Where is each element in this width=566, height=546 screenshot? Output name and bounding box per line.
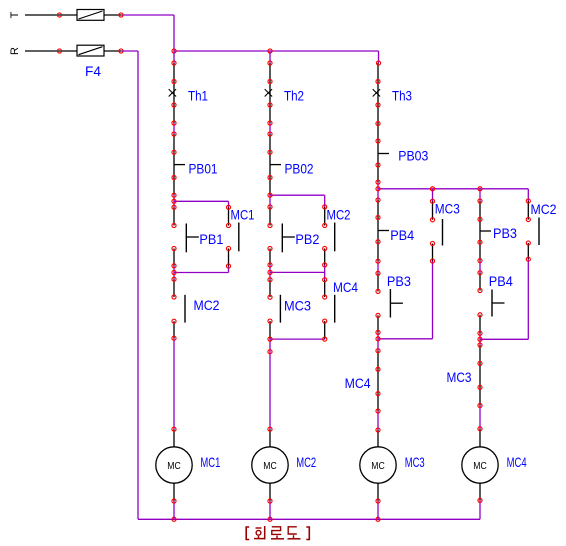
title hangul HOE: [254, 526, 266, 539]
svg-text:MC2: MC2: [194, 297, 220, 313]
wire rail 4 purple segments: [479, 189, 481, 429]
NO contact MC3: [279, 295, 281, 323]
title hangul RO: [271, 527, 284, 539]
wire rail 3 purple segments: [377, 182, 379, 519]
svg-text:MC: MC: [371, 461, 385, 472]
thermal overload contact Th3: [373, 82, 380, 106]
svg-text:PB4: PB4: [390, 227, 414, 243]
wire top supply bus purple: [174, 51, 379, 63]
wire branch MC2 right column black: [527, 201, 529, 259]
contactor coil MC1: [156, 447, 192, 483]
NO contact PB4: [492, 290, 505, 317]
NC pushbutton PB4: [378, 218, 389, 242]
wire branch MC2 tap purple: [270, 195, 325, 207]
NO contact MC3: [442, 219, 444, 246]
wire branch MC1 column black: [228, 207, 230, 266]
wire branch MC1 tap purple: [174, 201, 229, 207]
wire rail 2 purple segments: [269, 51, 271, 519]
title hangul DO: [288, 527, 301, 539]
svg-text:MC4: MC4: [345, 375, 371, 391]
svg-text:PB03: PB03: [398, 148, 428, 164]
node branch MC2 MC4 junctions: [323, 205, 327, 341]
thermal overload contact Th2: [265, 82, 272, 106]
NO contact PB2: [282, 224, 295, 253]
NC pushbutton PB03: [378, 141, 389, 165]
contactor coil MC2: [252, 447, 288, 483]
wire rail 1 purple segments: [173, 51, 175, 519]
wire branch MC4 rejoin purple: [270, 338, 325, 340]
NO contact MC2: [334, 223, 336, 252]
wire branch MC1 rejoin purple: [174, 266, 229, 273]
wire branch MC2 rejoin purple: [270, 265, 325, 280]
wire rail 3 black segments: [377, 63, 379, 501]
wire R feeder black lead: [25, 50, 77, 52]
NC pushbutton PB02: [270, 152, 281, 177]
node T line junctions: [57, 13, 123, 17]
svg-text:PB2: PB2: [295, 231, 319, 247]
NO contact MC4: [334, 295, 336, 323]
NC pushbutton PB01: [174, 152, 185, 177]
svg-text:MC3: MC3: [435, 201, 460, 217]
wire right bus purple: [378, 189, 528, 201]
NO contact MC2: [184, 295, 186, 323]
contactor coil MC3: [360, 447, 396, 483]
svg-text:PB3: PB3: [387, 273, 411, 289]
NO contact PB1: [186, 224, 199, 253]
svg-text:PB02: PB02: [285, 160, 314, 176]
wire branch MC2 right rejoin purple: [480, 259, 528, 339]
svg-text:Th2: Th2: [284, 88, 304, 104]
NC pushbutton PB3: [480, 219, 491, 242]
svg-text:PB4: PB4: [489, 273, 513, 289]
svg-text:MC4: MC4: [333, 279, 358, 295]
NO contact MC2: [538, 218, 540, 246]
node rail 4 junctions: [478, 187, 482, 503]
node top bus junctions: [172, 49, 272, 53]
svg-text:PB01: PB01: [189, 160, 218, 176]
svg-text:MC3: MC3: [447, 369, 472, 385]
node R line junctions: [57, 49, 123, 53]
svg-text:R: R: [9, 47, 21, 55]
wire rail 4 black segments: [479, 201, 481, 500]
fuse F4 body: [77, 45, 104, 56]
wire branch MC2 column black: [324, 207, 326, 265]
svg-text:MC2: MC2: [531, 201, 557, 217]
svg-text:MC1: MC1: [200, 454, 220, 470]
node branch MC1 junctions: [226, 205, 230, 268]
svg-text:MC: MC: [473, 461, 487, 472]
svg-text:MC2: MC2: [296, 454, 316, 470]
node rail 2 junctions: [268, 61, 272, 503]
title bracket right: [306, 527, 309, 540]
node branch MC2 right junctions: [526, 199, 530, 261]
svg-text:PB1: PB1: [199, 231, 223, 247]
thermal overload contact Th1: [169, 82, 176, 106]
wire R fuse to node: [104, 50, 121, 52]
node rail 1 junctions: [172, 61, 176, 503]
svg-text:MC4: MC4: [507, 454, 527, 470]
wire rail 2 black segments: [269, 63, 271, 501]
svg-text:MC: MC: [167, 461, 181, 472]
node branch MC3 junctions: [430, 187, 434, 263]
svg-text:Th1: Th1: [188, 88, 208, 104]
svg-text:MC3: MC3: [405, 454, 425, 470]
wire branch MC3 tap purple: [432, 189, 434, 201]
wire R return purple left rail: [121, 51, 138, 519]
svg-text:Th3: Th3: [392, 88, 412, 104]
svg-text:F4: F4: [85, 63, 101, 79]
wire branch MC3 rejoin purple: [378, 261, 433, 339]
wire bottom neutral bus purple: [138, 500, 480, 519]
svg-text:MC1: MC1: [231, 207, 255, 223]
wire branch MC4 column black: [324, 280, 326, 339]
node bottom bus junctions: [172, 517, 380, 521]
wire rail 1 black segments: [173, 63, 175, 501]
NO contact PB3: [390, 289, 403, 318]
NO contact MC1: [238, 223, 240, 252]
svg-text:MC3: MC3: [284, 298, 311, 314]
svg-text:MC: MC: [263, 461, 277, 472]
title bracket left: [246, 527, 249, 540]
wire T feed purple to rail 1 top: [121, 15, 174, 51]
wire T feeder black lead: [25, 14, 77, 16]
wire T fuse to node: [104, 14, 121, 16]
svg-text:PB3: PB3: [493, 225, 517, 241]
svg-text:T: T: [9, 11, 21, 18]
node rail 3 junctions: [376, 61, 381, 503]
svg-text:MC2: MC2: [327, 207, 351, 223]
contactor coil MC4: [462, 447, 498, 483]
wire branch MC3 column black: [432, 201, 434, 261]
fuse F-T body: [77, 10, 104, 21]
